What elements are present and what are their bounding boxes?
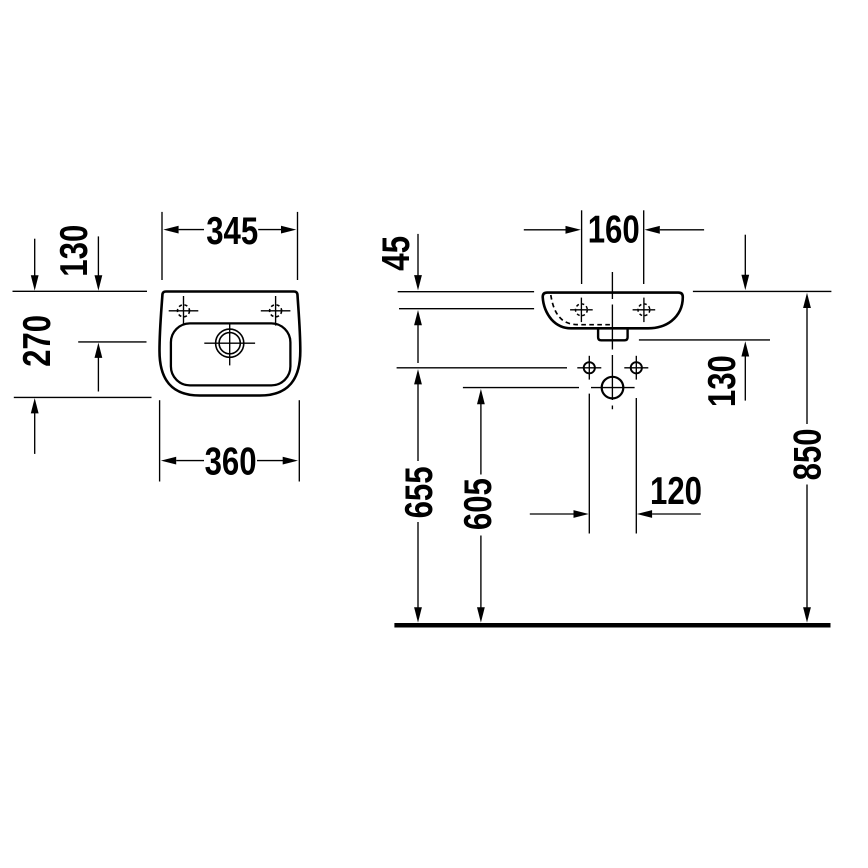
svg-text:45: 45 — [375, 236, 418, 271]
svg-text:655: 655 — [398, 466, 441, 518]
svg-text:120: 120 — [650, 470, 702, 513]
tap hole left (front view) — [570, 298, 593, 323]
svg-text:270: 270 — [16, 315, 59, 367]
extension line, basin front edge (plan) — [14, 396, 152, 398]
extension line, rim right (front view) — [693, 290, 832, 292]
drain circles (plan view) — [204, 323, 255, 366]
dimension 160 (tap hole spacing) — [524, 209, 704, 285]
fixing hole left (front view) — [577, 356, 601, 380]
extension line, rim left (front view) — [398, 291, 534, 293]
dimension 850 (rim height) — [787, 293, 830, 623]
basin outer outline (plan view) — [160, 292, 301, 396]
dimension 655 (fixing holes height) — [398, 369, 441, 622]
svg-text:605: 605 — [457, 478, 500, 530]
fixing hole right (front view) — [624, 356, 648, 380]
vertical centreline (front view) — [611, 272, 613, 409]
dimension 120 (fixing hole spacing) — [530, 394, 702, 534]
basin profile outline (front view) — [543, 293, 683, 329]
svg-text:345: 345 — [206, 210, 258, 253]
tap hole right (front view) — [633, 298, 656, 323]
dimension 45 (rim to tap centre) — [375, 234, 422, 363]
extension line, drain centre (plan) — [78, 341, 146, 343]
trap outlet circle (front view) — [591, 377, 635, 399]
extension line, basin back edge (plan) — [13, 290, 148, 292]
dimension 130 (rim to outlet, front) — [701, 235, 749, 407]
dimension 605 (trap height) — [457, 389, 500, 623]
floor line — [394, 623, 830, 628]
svg-text:130: 130 — [701, 355, 744, 407]
svg-text:130: 130 — [53, 225, 96, 277]
extension line, outlet stub bottom (front view) — [639, 339, 770, 341]
dimension 345 (plan top width) — [162, 210, 298, 280]
inner bowl outline (plan view) — [171, 323, 291, 385]
tap hole right (plan view) — [261, 296, 291, 326]
extension line, tap centre (front view) — [399, 308, 534, 310]
extension line, fixing holes (front view) — [397, 367, 567, 369]
dimension 130 (plan, back edge to drain centre) — [53, 225, 102, 392]
tap hole left (plan view) — [169, 296, 199, 326]
svg-text:160: 160 — [588, 209, 640, 252]
dimension 360 (plan overall width) — [160, 400, 300, 484]
hidden bowl line (front view, dashed) — [551, 295, 613, 325]
waste outlet stub (front view) — [598, 329, 628, 340]
svg-text:850: 850 — [787, 428, 830, 480]
extension line, trap centre (front view) — [463, 387, 579, 389]
svg-text:360: 360 — [205, 441, 257, 484]
dimension 270 (plan, overall depth) — [16, 239, 59, 454]
